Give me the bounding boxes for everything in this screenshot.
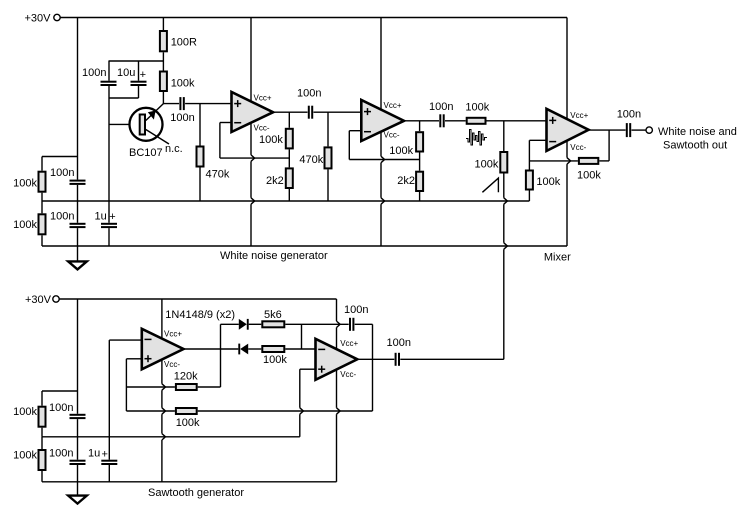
- wire U5 minus node down: [528, 140, 530, 169]
- svg-text:2k2: 2k2: [397, 175, 415, 187]
- wire decoupling top: [109, 60, 164, 62]
- wire 100k ref to mid rail: [528, 191, 530, 202]
- wire ground stem 2: [77, 482, 79, 496]
- label 100R: [171, 37, 197, 49]
- label 100n: [50, 167, 74, 179]
- wire 470k 2 to mid rail: [327, 169, 329, 201]
- wire diode branch vertical: [220, 324, 222, 387]
- op-amp U1: [232, 92, 274, 132]
- label 100k: [171, 78, 195, 90]
- resistor 100k feedback mixer: [579, 158, 598, 164]
- svg-text:100n: 100n: [82, 67, 106, 79]
- label Sawtooth out: [663, 140, 727, 152]
- wire fb cap row left: [302, 323, 349, 325]
- label 100n: [49, 448, 73, 460]
- wire base rail lower: [108, 86, 110, 223]
- wire diode1 to 5k6: [249, 323, 262, 325]
- label BC107: [129, 147, 163, 159]
- label Sawtooth generator: [148, 487, 244, 499]
- wire 100k row right: [198, 410, 373, 412]
- svg-text:+: +: [109, 211, 115, 223]
- svg-text:470k: 470k: [206, 169, 230, 181]
- wire divider top drop 2: [41, 391, 43, 406]
- resistor 100k feedback U2: [416, 132, 423, 151]
- label 2k2: [266, 175, 284, 187]
- wire diode rows join: [301, 324, 303, 349]
- node +30V supply terminal (white noise section): [54, 14, 60, 20]
- wire divider mid stub upper: [41, 193, 43, 201]
- svg-text:Mixer: Mixer: [544, 252, 571, 264]
- svg-text:100n: 100n: [170, 112, 194, 124]
- transistor Q1 BC107 body: [130, 108, 163, 141]
- wire 10u top stub: [138, 61, 140, 81]
- label U2 Vcc-: [384, 130, 400, 139]
- svg-text:10u: 10u: [117, 67, 135, 79]
- label U4 Vcc+: [340, 339, 358, 348]
- label Mixer: [544, 252, 571, 264]
- wire rail drop to 100R: [162, 18, 164, 31]
- label 100k: [259, 134, 283, 146]
- resistor 100k diode path: [262, 346, 284, 352]
- svg-text:120k: 120k: [174, 371, 198, 383]
- wire U1 fb node down: [288, 112, 290, 128]
- svg-text:100k: 100k: [13, 406, 37, 418]
- wire 100k to 2k2 2: [419, 153, 421, 171]
- wire divider bottom stub 2: [41, 471, 43, 482]
- wire U2 fb node down: [419, 121, 421, 131]
- transistor Q1 emitter to node: [146, 104, 164, 121]
- wire divider mid lower stub 2: [41, 437, 43, 449]
- wire U2 feedback bottom: [349, 159, 419, 161]
- wire U2 minus input: [349, 130, 361, 132]
- svg-text:White noise generator: White noise generator: [220, 250, 328, 262]
- resistor 100k divider lower: [39, 214, 46, 234]
- wire U1 Vcc+ supply: [250, 18, 252, 102]
- wire 470k to mid rail: [199, 168, 201, 202]
- svg-text:White noise and: White noise and: [658, 126, 737, 138]
- label 100k: [13, 219, 37, 231]
- label 1u: [95, 211, 107, 223]
- svg-text:+: +: [140, 69, 146, 81]
- capacitor 1u: [101, 223, 117, 228]
- svg-text:Vcc+: Vcc+: [384, 101, 402, 110]
- label 100k: [13, 450, 37, 462]
- svg-text:100R: 100R: [171, 37, 197, 49]
- wire cap to op-amp U1 +: [185, 103, 231, 105]
- wire mixer + input: [487, 120, 547, 122]
- resistor 100k hysteresis: [176, 408, 197, 414]
- label 2k2: [397, 175, 415, 187]
- capacitor 10u: [131, 81, 147, 86]
- wire U4 plus input: [300, 368, 316, 370]
- wire 100k row left: [126, 410, 174, 412]
- wire 5k6 to join: [285, 323, 301, 325]
- wire rail drop to left divider 2: [77, 299, 79, 414]
- svg-text:100k: 100k: [176, 417, 200, 429]
- resistor 100R: [160, 31, 167, 51]
- label 100n: [50, 211, 74, 223]
- wire sawtooth feed: [504, 174, 508, 360]
- wire 1u 2 bottom stub: [108, 465, 110, 482]
- label 1u: [88, 448, 100, 460]
- wire +30V rail sawtooth: [59, 298, 336, 300]
- label U3 Vcc+: [164, 330, 182, 339]
- wire U2 feedback left: [348, 131, 350, 160]
- svg-text:100n: 100n: [429, 101, 453, 113]
- capacitor 100n output: [626, 123, 631, 137]
- svg-text:BC107: BC107: [129, 147, 163, 159]
- wire ground rail: [42, 245, 567, 247]
- label 100n: [49, 402, 73, 414]
- wire U4 Vcc- down: [337, 369, 341, 481]
- svg-text:1u: 1u: [88, 448, 100, 460]
- resistor 100k collector load: [160, 72, 167, 92]
- wire divider mid stub lower: [41, 201, 43, 213]
- icon sawtooth waveform: [482, 178, 498, 192]
- wire cap to output terminal: [632, 129, 647, 131]
- wire divider top: [42, 156, 78, 158]
- svg-text:100k: 100k: [259, 134, 283, 146]
- op-amp U4: [316, 339, 358, 380]
- label 1u plus: [109, 211, 115, 223]
- wire U1 output: [273, 111, 307, 113]
- label U3 Vcc-: [164, 360, 180, 369]
- svg-text:100k: 100k: [465, 102, 489, 114]
- icon noise waveform: [466, 130, 487, 146]
- wire U2 output: [404, 120, 439, 122]
- label U5 Vcc-: [570, 143, 586, 152]
- wire divider top drop: [41, 157, 43, 171]
- capacitor 100n series C3: [439, 114, 444, 127]
- label U1 Vcc+: [254, 93, 272, 102]
- wire U1 feedback left: [219, 123, 221, 159]
- wire cap to mid rail 2: [77, 419, 79, 437]
- resistor 470k 2: [325, 147, 332, 168]
- resistor 470k: [197, 147, 204, 167]
- wire U1 Vcc- down: [251, 123, 255, 246]
- wire 120k row left: [126, 386, 174, 388]
- label 100k: [13, 178, 37, 190]
- wire fb to output node: [599, 160, 609, 162]
- wire mixer output: [589, 129, 626, 131]
- resistor 100k mixer reference: [526, 171, 533, 190]
- wire 120k to branch: [198, 386, 221, 388]
- op-amp U5 feedback wire: [529, 160, 578, 162]
- capacitor 100n divider lower 2: [70, 460, 86, 465]
- wire rail drop to left divider: [77, 18, 79, 180]
- label 100k: [389, 145, 413, 157]
- wire collector node to cap: [163, 103, 179, 105]
- label 100k: [13, 406, 37, 418]
- wire cap to U2 +: [314, 111, 362, 113]
- svg-text:100n: 100n: [50, 167, 74, 179]
- resistor 100k divider upper: [39, 172, 46, 192]
- resistor 100k mixer noise input: [467, 118, 486, 124]
- svg-text:Sawtooth out: Sawtooth out: [663, 140, 727, 152]
- wire sawtooth out: [400, 358, 504, 360]
- wire base rail: [108, 61, 110, 81]
- label 1u plus 2: [102, 448, 108, 460]
- wire diode1 row left: [221, 323, 239, 325]
- svg-text:100k: 100k: [263, 354, 287, 366]
- diode D1 1N4148: [239, 319, 249, 330]
- wire mid to cap 2: [77, 437, 79, 460]
- transistor Q1 base bar: [140, 115, 145, 135]
- wire 1u bottom stub: [108, 228, 110, 246]
- wire U3 plus node down: [125, 359, 127, 411]
- svg-text:Sawtooth generator: Sawtooth generator: [148, 487, 244, 499]
- svg-text:1N4148/9 (x2): 1N4148/9 (x2): [165, 309, 235, 321]
- wire fb node up: [608, 130, 610, 161]
- label 120k: [174, 371, 198, 383]
- resistor 100k feedback U1: [286, 129, 293, 149]
- svg-text:100k: 100k: [13, 450, 37, 462]
- svg-text:n.c.: n.c.: [165, 143, 183, 155]
- wire fb corner down: [372, 324, 374, 411]
- label +30V: [25, 13, 52, 25]
- wire 100R to node: [162, 52, 164, 70]
- wire ground stem: [77, 246, 79, 261]
- op-amp U2: [361, 100, 404, 141]
- wire cap to mixer resistor: [445, 120, 466, 122]
- wire mid rail: [42, 200, 529, 202]
- wire 10u join: [109, 97, 139, 99]
- svg-text:Vcc-: Vcc-: [570, 143, 586, 152]
- capacitor 100n sawtooth out: [395, 353, 400, 366]
- wire U3 minus node down: [108, 340, 110, 460]
- label 100n: [170, 112, 194, 124]
- svg-text:Vcc-: Vcc-: [384, 130, 400, 139]
- wire base to transistor: [109, 123, 131, 125]
- svg-text:Vcc-: Vcc-: [340, 370, 356, 379]
- node output terminal: [646, 127, 652, 133]
- label White noise generator: [220, 250, 328, 262]
- resistor 2k2 U2: [416, 172, 423, 191]
- svg-text:100n: 100n: [49, 448, 73, 460]
- label 10u: [117, 67, 135, 79]
- wire U3 output: [184, 348, 239, 350]
- wire U4 supply drop: [337, 299, 341, 349]
- svg-text:100n: 100n: [617, 109, 641, 121]
- svg-text:Vcc-: Vcc-: [164, 360, 180, 369]
- op-amp U3: [142, 329, 184, 370]
- svg-text:100k: 100k: [389, 145, 413, 157]
- label 100n: [387, 337, 411, 349]
- transistor Q1 arrow: [148, 111, 156, 120]
- svg-text:Vcc-: Vcc-: [254, 124, 270, 133]
- op-amp U5 mixer: [547, 109, 589, 151]
- capacitor 100n series C1: [179, 97, 184, 110]
- wire cap to mid rail: [77, 185, 79, 201]
- wire mid rail 2: [42, 436, 300, 438]
- wire 100k to 2k2: [288, 149, 290, 167]
- ground: [68, 261, 87, 269]
- wire fb cap to corner: [355, 323, 373, 325]
- label 100n: [82, 67, 106, 79]
- label 5k6: [264, 309, 282, 321]
- capacitor 100n divider lower: [70, 223, 86, 228]
- wire U3 minus input: [109, 339, 142, 341]
- label U4 Vcc-: [340, 370, 356, 379]
- label 470k: [299, 154, 323, 166]
- capacitor 100n bypass: [101, 81, 117, 86]
- wire divider top 2: [42, 390, 78, 392]
- wire U3 Vcc- down: [162, 360, 166, 482]
- wire node to 470k 2: [327, 112, 329, 146]
- label 100k: [475, 159, 499, 171]
- transistor Q1 n.c. lead: [146, 130, 169, 145]
- resistor 2k2 U1: [286, 168, 293, 188]
- wire ground rail 2: [42, 481, 337, 483]
- wire 2k2 to mid rail: [288, 189, 290, 201]
- wire diode2 to 100k: [248, 348, 261, 350]
- svg-text:100n: 100n: [49, 402, 73, 414]
- svg-text:1u: 1u: [95, 211, 107, 223]
- wire 100k to collector node: [162, 92, 164, 104]
- svg-text:100n: 100n: [387, 337, 411, 349]
- diode D2 1N4148: [238, 344, 248, 355]
- wire 100k to U4 minus: [285, 348, 315, 350]
- wire +30V rail top: [60, 17, 567, 19]
- label U2 Vcc+: [384, 101, 402, 110]
- wire U2 Vcc- down: [381, 132, 385, 247]
- wire divider mid stub 2: [41, 428, 43, 437]
- svg-text:100k: 100k: [13, 178, 37, 190]
- wire sawtooth node down: [503, 121, 505, 151]
- label 100k: [263, 354, 287, 366]
- svg-text:Vcc+: Vcc+: [340, 339, 358, 348]
- capacitor 1u 2: [101, 460, 117, 465]
- svg-text:100k: 100k: [577, 170, 601, 182]
- svg-text:100n: 100n: [297, 88, 321, 100]
- resistor 5k6: [262, 321, 284, 327]
- wire U5 Vcc- down: [567, 141, 571, 246]
- label +30V 2: [25, 294, 52, 306]
- wire mid rail to cap: [77, 201, 79, 223]
- label 100n: [617, 109, 641, 121]
- resistor 100k divider lower 2: [39, 450, 46, 470]
- wire U3 supply drop: [161, 299, 163, 338]
- label U5 Vcc+: [570, 111, 588, 120]
- svg-text:100n: 100n: [344, 304, 368, 316]
- label U1 Vcc-: [254, 124, 270, 133]
- ground 2: [68, 496, 87, 504]
- svg-text:100k: 100k: [475, 159, 499, 171]
- wire node to 470k: [199, 104, 201, 146]
- svg-text:5k6: 5k6: [264, 309, 282, 321]
- resistor 100k mixer sawtooth input: [500, 152, 507, 173]
- label n.c.: [165, 143, 183, 155]
- label 10u plus: [140, 69, 146, 81]
- wire cap to gnd 2: [77, 465, 79, 482]
- svg-text:100k: 100k: [536, 176, 560, 188]
- svg-text:+30V: +30V: [25, 13, 52, 25]
- label 100k: [176, 417, 200, 429]
- resistor 100k divider upper 2: [39, 407, 46, 427]
- capacitor 100n divider upper: [70, 180, 86, 185]
- wire U4 output: [357, 358, 394, 360]
- label White noise and: [658, 126, 737, 138]
- resistor 120k: [176, 384, 197, 390]
- wire U2 Vcc+ supply: [380, 18, 382, 110]
- label 100k: [536, 176, 560, 188]
- wire 2k2 2 to mid rail: [419, 192, 421, 201]
- node +30V supply terminal (sawtooth section): [53, 296, 59, 302]
- capacitor 100n series C2: [308, 106, 313, 119]
- label 100k: [577, 170, 601, 182]
- svg-text:100n: 100n: [50, 211, 74, 223]
- capacitor 100n U4 feedback: [349, 318, 354, 331]
- svg-text:470k: 470k: [299, 154, 323, 166]
- svg-text:Vcc+: Vcc+: [164, 330, 182, 339]
- label 100n: [429, 101, 453, 113]
- wire U1 feedback bottom: [220, 157, 289, 159]
- svg-text:2k2: 2k2: [266, 175, 284, 187]
- svg-text:Vcc+: Vcc+: [254, 93, 272, 102]
- svg-text:+: +: [102, 448, 108, 460]
- label 100k: [465, 102, 489, 114]
- svg-text:100k: 100k: [13, 219, 37, 231]
- wire cap to gnd rail: [77, 228, 79, 246]
- label 100n: [297, 88, 321, 100]
- wire U5 Vcc+ drop: [566, 18, 568, 119]
- wire U3 plus input: [126, 358, 141, 360]
- svg-text:Vcc+: Vcc+: [570, 111, 588, 120]
- label 1N4148/9 (x2): [165, 309, 235, 321]
- wire U1 minus input: [220, 122, 232, 124]
- label 100n: [344, 304, 368, 316]
- svg-text:+30V: +30V: [25, 294, 52, 306]
- wire divider bottom stub: [41, 235, 43, 246]
- wire U5 minus input: [529, 139, 546, 141]
- svg-text:100k: 100k: [171, 78, 195, 90]
- capacitor 100n divider upper 2: [70, 414, 86, 419]
- wire 10u bottom stub: [138, 86, 140, 98]
- wire U4 plus node down: [300, 369, 304, 437]
- label 470k: [206, 169, 230, 181]
